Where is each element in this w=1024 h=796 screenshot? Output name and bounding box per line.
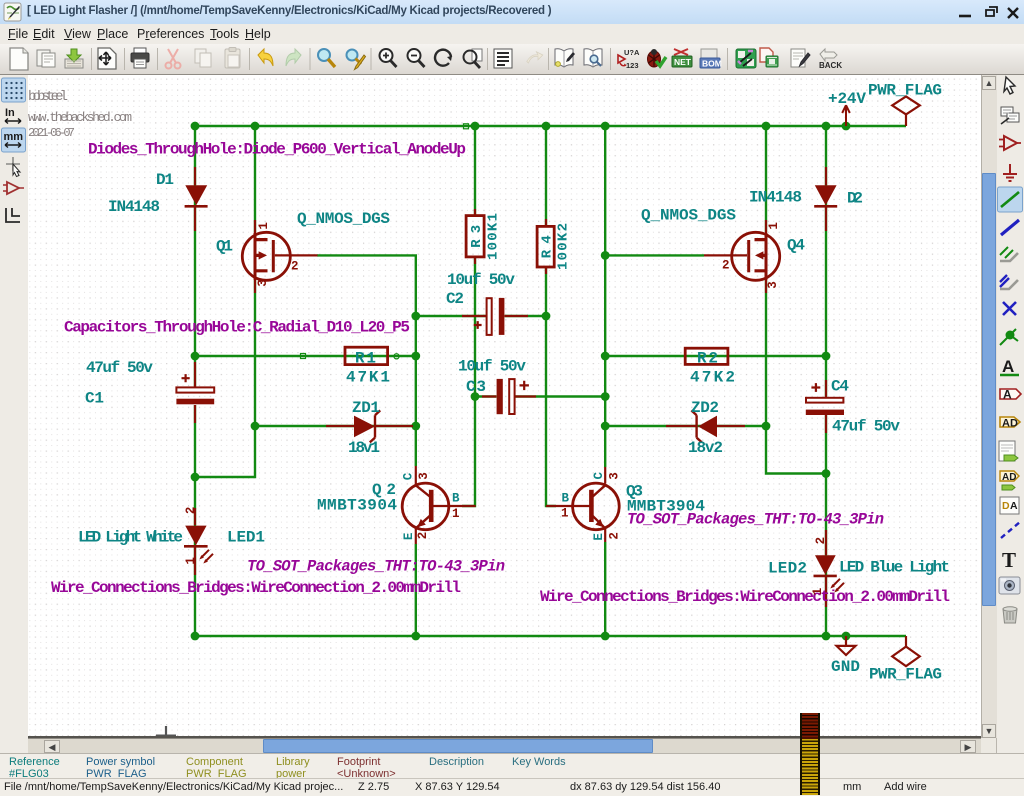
junction C3 left — [471, 392, 480, 401]
wire to bus entry — [1000, 247, 1018, 261]
window title bar — [0, 0, 1024, 24]
junction bottom rail x415 — [411, 632, 420, 641]
svg-text:3: 3 — [417, 472, 431, 480]
svg-text:C2: C2 — [446, 290, 464, 308]
annotate — [618, 48, 640, 70]
svg-text:MMBT3904: MMBT3904 — [317, 497, 397, 515]
run pcbnew — [736, 49, 756, 68]
library browser — [584, 49, 602, 67]
svg-text:Q1: Q1 — [216, 238, 233, 256]
svg-text:PWR_FLAG: PWR_FLAG — [869, 666, 942, 684]
svg-text:2: 2 — [291, 260, 299, 274]
svg-text:1: 1 — [184, 557, 198, 565]
svg-text:TO_SOT_Packages_THT:TO-43_3Pin: TO_SOT_Packages_THT:TO-43_3Pin — [247, 558, 505, 576]
junction C4 bottom node — [822, 469, 831, 478]
Q2 pin leads — [416, 466, 476, 544]
wire node A vertical — [415, 316, 417, 466]
junction R2 right — [822, 352, 831, 361]
power flag PWR_FLAG bottom — [892, 636, 920, 666]
svg-text:LED Light White: LED Light White — [78, 529, 183, 547]
wire Q1 drain — [254, 126, 256, 232]
highlight net — [1001, 107, 1019, 124]
global label — [1000, 388, 1021, 402]
app icon — [3, 2, 23, 22]
canvas — [28, 75, 981, 737]
rendering glitch bar — [800, 713, 820, 795]
new schematic — [10, 48, 28, 70]
undo — [258, 49, 273, 66]
svg-text:Q4: Q4 — [787, 237, 805, 255]
wire Q4 source to ZD2 and C4 node — [766, 280, 826, 474]
wire Q4 gate — [605, 254, 704, 256]
wire R3 branch — [462, 126, 475, 506]
hierarchy navigator — [494, 49, 512, 68]
svg-text:1: 1 — [452, 507, 460, 521]
ERC check — [648, 49, 667, 67]
svg-text:D: D — [1002, 500, 1010, 512]
axis origin marker — [156, 726, 176, 737]
toolbar — [0, 44, 1024, 75]
svg-text:3: 3 — [608, 472, 622, 480]
no connect flag — [1003, 302, 1016, 315]
transistor Q1 (NMOS, mirrored) — [242, 232, 290, 280]
svg-text:U?A: U?A — [624, 48, 640, 57]
wire Q1 source to ZD1 and C1 node — [195, 280, 255, 477]
wire node B vertical — [604, 126, 606, 467]
place bus — [1001, 220, 1019, 235]
status bar — [0, 753, 1024, 796]
svg-text:Diodes_ThroughHole:Diode_P600_: Diodes_ThroughHole:Diode_P600_Vertical_A… — [88, 141, 466, 159]
svg-text:123: 123 — [626, 61, 639, 70]
import sheet pin — [999, 441, 1018, 461]
svg-text:AD: AD — [1002, 418, 1018, 430]
svg-text:D1: D1 — [156, 171, 174, 189]
svg-text:1: 1 — [811, 588, 825, 596]
wire C3 link — [475, 395, 605, 397]
svg-text:3: 3 — [766, 281, 780, 289]
junction top rail x766 — [762, 122, 771, 131]
svg-text:NET: NET — [674, 57, 692, 67]
svg-text:www.thebackshed.com: www.thebackshed.com — [28, 110, 132, 125]
svg-text:100K1: 100K1 — [485, 213, 501, 260]
wire Q1 gate to node A — [317, 255, 416, 316]
junction top rail x605 — [601, 122, 610, 131]
svg-text:LED2: LED2 — [768, 560, 807, 578]
place component — [999, 136, 1021, 150]
svg-text:Q_NMOS_DGS: Q_NMOS_DGS — [297, 210, 390, 228]
capacitor C1 — [176, 374, 214, 404]
netlist NET — [672, 49, 692, 67]
resistor R2 — [685, 348, 728, 364]
svg-text:2: 2 — [416, 532, 430, 540]
svg-text:C: C — [592, 472, 606, 480]
C3 pin leads — [482, 395, 536, 397]
print — [131, 48, 149, 68]
select tool — [1004, 77, 1015, 94]
svg-text:In: In — [5, 107, 15, 119]
resistor R4 — [537, 226, 554, 267]
svg-text:mm: mm — [4, 131, 24, 143]
svg-text:C3: C3 — [466, 378, 486, 396]
svg-text:E: E — [592, 533, 606, 541]
HV orientation — [6, 208, 20, 222]
LED LED2 — [814, 555, 845, 592]
wire end marker square R1 — [301, 354, 306, 359]
svg-text:Capacitors_ThroughHole:C_Radia: Capacitors_ThroughHole:C_Radial_D10_L20_… — [64, 319, 410, 337]
capacitor C3 — [497, 379, 529, 414]
power flag PWR_FLAG top — [892, 96, 920, 126]
redraw view — [435, 50, 452, 66]
ZD1 pin leads — [326, 425, 413, 427]
junction bottom rail x605 — [601, 632, 610, 641]
svg-text:1: 1 — [767, 222, 781, 230]
svg-text:47uf 50v: 47uf 50v — [832, 418, 900, 436]
LED LED1 — [184, 526, 213, 564]
wire ZD2 link — [605, 425, 766, 427]
transistor Q3 (NPN) — [573, 483, 620, 530]
ground symbol GND — [837, 636, 856, 655]
junction Q4 gate — [601, 251, 610, 260]
svg-text:2: 2 — [608, 532, 622, 540]
resistor R1 — [345, 347, 388, 364]
capacitor C4 — [806, 383, 844, 415]
svg-text:A: A — [1010, 500, 1018, 512]
assign footprints — [760, 48, 778, 67]
junction top rail x255 — [251, 122, 260, 131]
svg-text:2: 2 — [184, 507, 198, 515]
D1 pin leads — [194, 167, 196, 231]
pin end marker circle R1 — [394, 354, 399, 359]
svg-text:PWR_FLAG: PWR_FLAG — [868, 82, 942, 100]
BOM — [700, 49, 722, 69]
grid toggle (selected) — [2, 78, 26, 102]
edit footprints — [791, 49, 810, 67]
sheet settings — [98, 48, 116, 69]
mm (selected) — [2, 128, 26, 152]
zoom to fit — [464, 49, 483, 68]
junction ZD2 right — [762, 422, 771, 431]
R3 pin leads — [474, 209, 476, 264]
svg-text:IN4148: IN4148 — [749, 189, 802, 207]
svg-text:LED Blue Light: LED Blue Light — [839, 559, 950, 577]
junction R2 left — [601, 352, 610, 361]
svg-text:1: 1 — [257, 222, 271, 230]
svg-text:AD: AD — [1002, 472, 1016, 483]
wire end marker square top rail — [464, 124, 469, 129]
zoom in — [380, 49, 397, 67]
svg-text:18v1: 18v1 — [348, 439, 380, 457]
svg-text:1: 1 — [561, 507, 569, 521]
junction ZD1 left — [251, 422, 260, 431]
junction R1 right — [411, 352, 420, 361]
hierarchical sheet — [1000, 497, 1019, 514]
svg-text:Q_NMOS_DGS: Q_NMOS_DGS — [641, 207, 736, 225]
svg-text:C1: C1 — [85, 390, 104, 408]
junction top rail +24V — [842, 122, 851, 131]
redo (disabled) — [286, 49, 301, 66]
wire node A emitter to bottom — [415, 544, 417, 636]
cut (disabled) — [166, 49, 181, 69]
junction C2 right — [542, 312, 551, 321]
junction top rail x475 — [471, 122, 480, 131]
junction bottom rail GND — [842, 632, 851, 641]
zoom out — [408, 49, 425, 67]
junction top rail x195 — [191, 122, 200, 131]
svg-text:R1: R1 — [355, 350, 376, 368]
junction top rail x826 — [822, 122, 831, 131]
svg-text:10uf 50v: 10uf 50v — [458, 358, 526, 376]
wire C2 link — [416, 315, 546, 317]
svg-text:47uf 50v: 47uf 50v — [86, 359, 153, 377]
library editor — [555, 49, 575, 67]
wire R1 link — [195, 355, 416, 357]
find — [318, 49, 335, 67]
junction bottom rail x826 — [822, 632, 831, 641]
capacitor C2 — [474, 298, 505, 335]
Q1 pin leads — [255, 220, 318, 293]
wire node B emitter to bottom — [604, 542, 606, 636]
wire R4 branch — [546, 126, 556, 506]
wire left rail — [194, 126, 196, 636]
diode D2 — [814, 185, 837, 206]
wire bottom ground rail — [195, 635, 906, 637]
LED1 pin leads — [194, 508, 196, 575]
D2 pin leads — [825, 167, 827, 231]
wire Q4 drain — [765, 126, 767, 232]
transistor Q2 (NPN, mirrored) — [402, 483, 449, 530]
zener diode ZD2 — [691, 410, 717, 442]
save — [65, 49, 83, 68]
wire top power rail — [195, 125, 906, 127]
svg-text:bobsteel: bobsteel — [28, 89, 68, 105]
hidden pins — [3, 182, 24, 194]
svg-text:Wire_Connections_Bridges:WireC: Wire_Connections_Bridges:WireConnection_… — [540, 588, 950, 606]
find replace — [347, 50, 366, 70]
svg-text:ZD2: ZD2 — [691, 399, 719, 417]
wire ZD1 link — [255, 425, 416, 427]
svg-text:Wire_Connections_Bridges:WireC: Wire_Connections_Bridges:WireConnection_… — [51, 579, 461, 597]
svg-text:ZD1: ZD1 — [352, 399, 380, 417]
menu bar — [0, 24, 1024, 44]
svg-text:GND: GND — [831, 658, 860, 676]
svg-text:B: B — [562, 492, 570, 506]
horizontal scrollbar — [28, 738, 981, 754]
junction C3 right — [601, 392, 610, 401]
svg-text:MMBT3904: MMBT3904 — [627, 498, 705, 516]
svg-text:C4: C4 — [831, 378, 849, 396]
svg-text:2: 2 — [722, 259, 730, 273]
C4 pin leads — [825, 380, 827, 433]
svg-text:+24V: +24V — [828, 90, 866, 108]
LED2 pin leads — [825, 530, 827, 607]
back-annotate BACK — [819, 49, 842, 70]
bus to bus entry — [1000, 275, 1018, 289]
delete tool — [1003, 607, 1017, 623]
svg-text:100K2: 100K2 — [556, 223, 572, 270]
svg-text:C: C — [402, 472, 416, 480]
place sheet pin — [1000, 471, 1019, 490]
svg-text:2021-06-07: 2021-06-07 — [28, 126, 75, 140]
place wire (selected) — [998, 187, 1023, 212]
svg-text:47K1: 47K1 — [346, 369, 390, 387]
wire R2 link — [605, 355, 826, 357]
svg-text:T: T — [1002, 548, 1016, 572]
vertical scrollbar — [981, 75, 997, 738]
transistor Q4 (NMOS) — [732, 232, 780, 280]
junction C2 left — [411, 312, 420, 321]
Q4 pin leads — [704, 220, 766, 293]
svg-text:LED1: LED1 — [227, 529, 265, 547]
open — [37, 50, 55, 67]
svg-text:BACK: BACK — [819, 61, 842, 70]
junction C1 bottom node — [191, 473, 200, 482]
separators — [92, 48, 728, 70]
place power port — [1003, 164, 1017, 181]
svg-text:IN4148: IN4148 — [108, 198, 160, 216]
svg-text:3: 3 — [256, 279, 270, 287]
diode D1 — [185, 185, 208, 206]
Q3 pin leads — [546, 467, 605, 542]
paste (disabled) — [225, 48, 240, 69]
R4 pin leads — [545, 219, 547, 274]
C1 pin leads — [194, 362, 196, 423]
right toolbar — [996, 75, 1024, 753]
window buttons — [955, 4, 1023, 20]
svg-text:D2: D2 — [847, 190, 863, 208]
svg-text:2: 2 — [814, 537, 828, 545]
place image — [999, 577, 1020, 594]
junction bottom rail x195 — [191, 632, 200, 641]
cursor shape — [6, 157, 20, 171]
copy (disabled) — [195, 49, 211, 67]
svg-text:A: A — [1002, 357, 1014, 376]
zener diode ZD1 — [354, 410, 380, 442]
ZD2 pin leads — [666, 425, 745, 427]
graphic line — [1001, 523, 1019, 538]
svg-text:BOM: BOM — [702, 59, 722, 69]
C2 pin leads — [462, 315, 528, 317]
svg-text:18v2: 18v2 — [688, 439, 723, 457]
junction ZD1 right — [411, 422, 420, 431]
svg-text:E: E — [402, 533, 416, 541]
junction — [1000, 329, 1018, 345]
junction R1 left — [191, 352, 200, 361]
power symbol +24V — [842, 105, 850, 126]
left toolbar — [0, 75, 29, 753]
resistor R3 — [466, 216, 484, 257]
svg-text:A: A — [1003, 388, 1012, 402]
wire right rail — [825, 126, 827, 636]
svg-text:B: B — [452, 492, 460, 506]
junction top rail x546 — [542, 122, 551, 131]
hierarchical label — [1000, 417, 1020, 430]
junction ZD2 left — [601, 422, 610, 431]
svg-text:10uf 50v: 10uf 50v — [447, 271, 515, 289]
svg-text:R2: R2 — [697, 350, 718, 368]
leave sheet (disabled) — [527, 52, 543, 63]
